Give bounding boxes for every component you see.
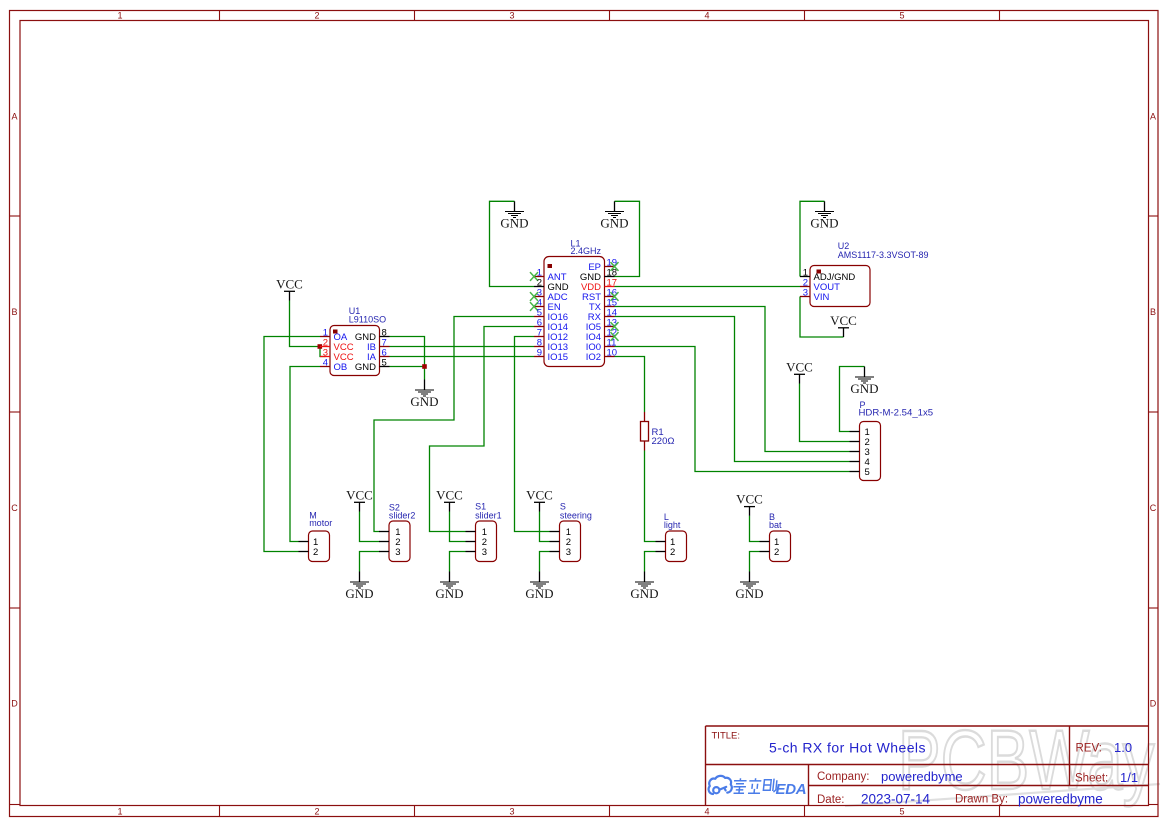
ground (P header)	[850, 367, 878, 396]
power VCC (S)	[526, 487, 553, 511]
ground (top left)	[500, 201, 528, 230]
svg-text:2: 2	[313, 547, 318, 558]
svg-text:slider1: slider1	[475, 510, 502, 520]
connector B (bat)	[760, 512, 791, 561]
wire: L1 pin18 GND to top ground	[615, 201, 640, 276]
svg-text:Company:: Company:	[817, 771, 869, 783]
PCBWay watermark	[845, 712, 1160, 807]
svg-text:IO2: IO2	[586, 352, 601, 363]
connector M (motor)	[299, 511, 333, 562]
power VCC (U2)	[830, 313, 857, 337]
power VCC (P header)	[786, 359, 813, 383]
resistor R1 220ohm	[641, 412, 675, 451]
svg-text:C: C	[11, 503, 18, 513]
svg-text:220Ω: 220Ω	[652, 436, 675, 447]
ground (S2)	[345, 572, 373, 601]
svg-text:3: 3	[509, 10, 514, 20]
svg-text:3: 3	[803, 288, 808, 299]
svg-text:B: B	[11, 307, 17, 317]
svg-text:GND: GND	[850, 381, 878, 396]
svg-text:5: 5	[899, 806, 904, 816]
wire: S1 VCC to pin2	[450, 512, 466, 542]
wire: net TX L1 pin15 to P pin3	[615, 307, 850, 452]
svg-text:GND: GND	[735, 586, 763, 601]
svg-text:5: 5	[382, 358, 387, 369]
IC U1 L9110SO motor driver	[320, 306, 390, 375]
wire: net RX L1 pin14 to P pin4	[615, 317, 850, 462]
svg-text:GND: GND	[345, 586, 373, 601]
svg-text:4: 4	[323, 358, 328, 369]
svg-text:2: 2	[670, 547, 675, 558]
svg-text:OB: OB	[334, 362, 348, 373]
power VCC (S1)	[436, 487, 463, 511]
svg-text:steering: steering	[560, 510, 592, 520]
svg-text:C: C	[1150, 503, 1157, 513]
svg-text:1: 1	[117, 806, 122, 816]
ground (top middle)	[600, 201, 628, 230]
svg-text:poweredbyme: poweredbyme	[881, 769, 963, 784]
IC U2 AMS1117-3.3 regulator	[800, 241, 929, 306]
svg-text:10: 10	[607, 348, 618, 359]
svg-text:3: 3	[395, 547, 400, 558]
svg-text:L9110SO: L9110SO	[349, 315, 386, 325]
svg-text:3: 3	[566, 547, 571, 558]
wire: net IO14 L1 pin6 to S1 pin1	[430, 327, 535, 532]
svg-text:TITLE:: TITLE:	[712, 731, 741, 742]
svg-text:4: 4	[704, 806, 709, 816]
junction at U1 VCC pin2	[318, 344, 323, 349]
ground (U2)	[810, 201, 838, 230]
wire: net IO16 L1 pin5 to S2 pin1	[374, 317, 534, 532]
JLC EDA logo	[709, 776, 732, 794]
wire: S1 pin3 to ground	[450, 552, 466, 572]
svg-text:A: A	[11, 112, 17, 122]
svg-text:2: 2	[314, 806, 319, 816]
svg-text:EDA: EDA	[776, 781, 807, 798]
ground (S)	[525, 572, 553, 601]
svg-text:motor: motor	[309, 518, 332, 528]
IC L1 2.4GHz RF module	[530, 239, 619, 367]
svg-text:GND: GND	[355, 362, 376, 373]
svg-text:GND: GND	[410, 394, 438, 409]
svg-text:9: 9	[537, 348, 542, 359]
svg-text:1: 1	[117, 10, 122, 20]
svg-text:2: 2	[774, 547, 779, 558]
svg-text:2: 2	[314, 10, 319, 20]
junction at U1 ground net	[422, 364, 427, 369]
svg-text:REV:: REV:	[1076, 743, 1102, 755]
connector S2 (slider2)	[379, 502, 415, 561]
wire: L pin2 to ground	[645, 552, 656, 572]
svg-text:D: D	[11, 699, 18, 709]
svg-text:2023-07-14: 2023-07-14	[861, 791, 931, 806]
svg-text:GND: GND	[500, 216, 528, 231]
connector P HDR-M-2.54 1x5 header	[850, 400, 934, 480]
svg-text:GND: GND	[810, 216, 838, 231]
wire: U2 pin1 ADJ/GND to ground	[800, 201, 825, 276]
ground (U1)	[410, 380, 438, 409]
svg-text:4: 4	[704, 10, 709, 20]
svg-text:VCC: VCC	[786, 359, 813, 374]
svg-text:VCC: VCC	[276, 276, 303, 291]
title block	[706, 726, 1149, 806]
wire: L1 pin2 GND to top-left ground	[490, 201, 535, 286]
svg-text:3: 3	[509, 806, 514, 816]
connector L (light)	[656, 512, 687, 561]
svg-text:bat: bat	[769, 520, 782, 530]
svg-text:GND: GND	[600, 216, 628, 231]
svg-text:GND: GND	[525, 586, 553, 601]
wire: net IO12 L1 pin7 to S pin1	[515, 337, 550, 532]
svg-text:1/1: 1/1	[1120, 770, 1138, 785]
svg-text:HDR-M-2.54_1x5: HDR-M-2.54_1x5	[859, 408, 934, 419]
wire: S pin3 to ground	[540, 552, 550, 572]
wire: S2 VCC to pin2	[360, 512, 380, 542]
connector S1 (slider1)	[466, 502, 502, 562]
svg-text:5-ch RX for Hot Wheels: 5-ch RX for Hot Wheels	[769, 740, 926, 756]
svg-text:3: 3	[482, 547, 487, 558]
svg-text:VCC: VCC	[830, 313, 857, 328]
wire: net VDD L1 pin17 to U2 VOUT	[615, 286, 801, 288]
wire: S2 pin3 to ground	[360, 552, 380, 572]
ground (B)	[735, 572, 763, 601]
wire: U1 pin8 GND down to ground	[390, 337, 425, 380]
svg-text:2.4GHz: 2.4GHz	[571, 246, 602, 256]
wire: net IO0 L1 pin11 to P pin5	[615, 347, 850, 472]
svg-text:poweredbyme: poweredbyme	[1018, 791, 1103, 806]
wire: S VCC to pin2	[540, 512, 550, 542]
svg-text:Drawn By:: Drawn By:	[955, 794, 1008, 806]
svg-text:5: 5	[899, 10, 904, 20]
ground (L)	[630, 572, 658, 601]
svg-text:D: D	[1150, 699, 1157, 709]
svg-text:VCC: VCC	[346, 487, 373, 502]
svg-text:A: A	[1150, 112, 1156, 122]
wire: U1 pin5 GND join	[390, 366, 425, 368]
svg-text:1.0: 1.0	[1114, 740, 1132, 755]
svg-text:IO15: IO15	[548, 352, 569, 363]
svg-text:VCC: VCC	[736, 492, 763, 507]
wire: B VCC to pin1	[750, 516, 760, 542]
wire: net IA U1 pin6 to L1 pin9	[390, 356, 535, 358]
wire: net OA U1 pin1 to M pin2	[264, 337, 320, 552]
svg-text:Date:: Date:	[817, 794, 845, 806]
wire: U2 pin3 VIN to VCC	[800, 297, 844, 338]
wire: P pin2 to VCC	[800, 384, 850, 442]
svg-text:B: B	[1150, 307, 1156, 317]
power VCC (S2)	[346, 487, 373, 511]
svg-text:GND: GND	[435, 586, 463, 601]
wire: net IB U1 pin7 to L1 pin8	[390, 346, 535, 348]
power VCC (U1)	[276, 276, 303, 300]
svg-text:VCC: VCC	[436, 487, 463, 502]
wire: VCC to U1 pins 2,3	[290, 301, 326, 357]
wire: P pin1 to ground	[840, 367, 865, 432]
connector S (steering)	[550, 502, 592, 562]
svg-text:slider2: slider2	[389, 510, 416, 520]
svg-text:AMS1117-3.3VSOT-89: AMS1117-3.3VSOT-89	[838, 250, 929, 260]
wire: net IO2 L1 pin10 to R1 top	[615, 357, 645, 413]
wire: B pin2 to ground	[750, 552, 760, 572]
svg-text:VIN: VIN	[814, 292, 830, 303]
wire: R1 bottom to L pin1	[645, 451, 656, 542]
svg-text:light: light	[664, 520, 681, 530]
wire: net OB U1 pin4 to M pin1	[290, 367, 320, 542]
ground (S1)	[435, 572, 463, 601]
svg-text:5: 5	[865, 467, 870, 478]
svg-text:GND: GND	[630, 586, 658, 601]
svg-text:Sheet:: Sheet:	[1075, 773, 1108, 785]
svg-text:VCC: VCC	[526, 487, 553, 502]
power VCC (B)	[736, 492, 763, 516]
